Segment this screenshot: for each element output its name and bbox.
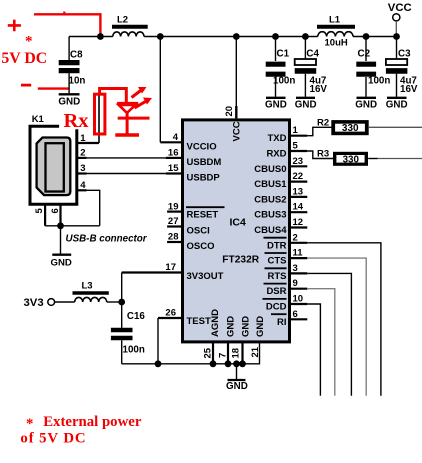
node : C4 junction [302,33,309,40]
svg-text:14: 14 [293,202,304,213]
node : GND stem junction [233,360,240,367]
svg-text:5: 5 [293,141,299,152]
svg-text:GND: GND [355,100,377,111]
ic U1 IC4 FT232R body [183,120,290,342]
svg-text:AGND: AGND [210,309,221,337]
wire : bus to ground symbol [236,364,238,379]
svg-text:22: 22 [293,171,304,182]
svg-text:CBUS3: CBUS3 [254,210,286,221]
wire : K1 pin1 up through Rx [98,92,100,143]
svg-text:C4: C4 [306,49,319,60]
svg-text:DSR: DSR [266,286,286,297]
node : TEST junction [155,360,162,367]
pin 26 TEST of IC4 [158,308,211,328]
svg-text:10uH: 10uH [325,38,348,49]
svg-text:13: 13 [293,186,304,197]
svg-text:100n: 100n [368,76,390,87]
svg-text:3V3: 3V3 [24,297,44,309]
capacitor C4 (polarized) [295,37,328,97]
wire : red resistor to LED [100,89,127,103]
node : red junction on rail [97,33,104,40]
node : C3/VCC junction [393,33,400,40]
svg-text:12: 12 [293,217,304,228]
wire : red minus lead [38,87,69,89]
inductor L1 [317,15,355,49]
svg-text:330: 330 [343,154,360,165]
svg-text:VCC: VCC [388,2,412,14]
node : 3V3 junction [118,299,125,306]
svg-text:OSCO: OSCO [187,241,215,252]
svg-text:CTS: CTS [268,256,287,267]
svg-text:23: 23 [293,156,304,167]
svg-text:GND: GND [240,316,251,337]
svg-text:6: 6 [50,208,61,213]
svg-text:L2: L2 [117,15,128,26]
svg-text:16V: 16V [310,84,328,95]
svg-text:L1: L1 [329,15,341,26]
svg-text:GND: GND [386,100,408,111]
wire : shield ground bus [45,225,100,227]
pin 17 3V3OUT of IC4 [122,262,224,282]
pin 1 of K1 [77,133,99,144]
svg-text:20: 20 [224,106,235,117]
ground below C1 [265,98,287,111]
svg-text:DCD: DCD [266,302,287,313]
LED D1 (red annotation) [115,87,152,135]
wire : USBDP (K1 pin3 to IC pin15) [87,173,167,175]
power VCC [388,2,412,36]
svg-text:GND: GND [226,381,248,392]
pin 5 RXD of IC4 [266,141,307,160]
svg-text:CBUS4: CBUS4 [254,225,287,236]
wire : CTS net [307,258,366,396]
pin 22 CBUS1 of IC4 [254,171,307,190]
wire : K1 pin4 to shield net [87,190,100,226]
connector K1 USB-B [30,114,77,204]
pin 6 of K1 [50,204,61,226]
svg-text:5V DC: 5V DC [1,50,47,67]
pin 23 CBUS0 of IC4 [254,156,307,175]
capacitor C1 [266,37,296,97]
pin 9 DSR of IC4 [264,278,308,297]
ground below C4 [295,98,317,111]
svg-text:TXD: TXD [268,133,287,144]
svg-text:100n: 100n [273,76,295,87]
ground below C8 [58,94,80,107]
svg-text:R3: R3 [317,149,329,160]
svg-text:4: 4 [80,180,86,191]
wire : R2 output [368,126,422,128]
node : GND18 junction [239,360,246,367]
svg-text:RTS: RTS [268,271,287,282]
label USB-B connector [66,234,148,245]
pin 5 of K1 [34,204,45,226]
label external power note (red) [20,414,141,447]
wire : rail to C8 [68,37,70,61]
wire : R3 output [368,158,422,160]
node : AGND junction [210,360,217,367]
resistor R2 [317,118,369,136]
svg-text:GND: GND [225,316,236,337]
svg-text:External power: External power [43,414,142,430]
inductor L3 [73,281,109,303]
svg-text:26: 26 [165,308,176,319]
svg-text:6: 6 [293,309,298,320]
svg-text:CBUS1: CBUS1 [254,179,287,190]
pin 14 CBUS3 of IC4 [254,202,307,221]
wire : rail down to VCC pin 20 [235,37,237,119]
wire : TXD to R2 [307,127,332,135]
label * (red) [25,34,33,50]
node : rail/VCCIO junction [157,33,164,40]
wire : 3V3OUT drop [121,273,123,303]
svg-text:IC4: IC4 [230,217,247,229]
pin 16 USBDM of IC4 [166,148,221,169]
wire : DCD net [307,304,320,396]
wire : RXD to R3 [307,151,334,159]
pin 19 RESET of IC4 [167,201,224,220]
svg-text:DTR: DTR [267,240,287,251]
node : rail/pin20 junction [233,33,240,40]
svg-text:17: 17 [165,262,176,273]
label - (red) [21,84,31,87]
svg-text:7: 7 [217,353,228,358]
svg-text:16V: 16V [400,84,418,95]
svg-text:GND: GND [255,316,266,337]
svg-text:GND: GND [51,258,72,269]
wire : USBDM (K1 pin2 to IC pin16) [87,157,167,159]
pin 6 RI of IC4 [271,309,307,328]
svg-text:15: 15 [168,163,179,174]
svg-text:R2: R2 [317,118,329,129]
inductor L2 [112,15,148,37]
svg-text:Rx: Rx [64,110,90,132]
label + (red) [8,20,21,32]
svg-text:3: 3 [293,263,298,274]
svg-text:VCCIO: VCCIO [187,142,217,153]
svg-text:19: 19 [168,201,179,212]
svg-text:USBDP: USBDP [187,173,221,184]
resistor Rx (red annotation) [64,94,105,134]
svg-text:VCC: VCC [231,121,242,141]
wire : C8 to ground [68,73,70,93]
ground below IC4 [226,380,248,392]
pin 4 VCCIO of IC4 [160,132,216,153]
svg-text:25: 25 [202,347,213,358]
pin 1 TXD of IC4 [268,125,308,144]
pin 25 AGND of IC4 [202,309,221,364]
ground below C2 [355,98,377,111]
svg-text:OSCI: OSCI [187,226,210,237]
capacitor C2 [356,37,390,97]
ground below C3 [386,98,408,111]
pin 21 GND of IC4 [250,316,266,358]
svg-text:10: 10 [293,294,304,305]
svg-text:GND: GND [295,100,317,111]
svg-text:FT232R: FT232R [222,255,259,266]
svg-text:of 5V DC: of 5V DC [20,431,86,447]
svg-text:11: 11 [293,248,304,259]
svg-text:5: 5 [34,208,45,214]
svg-text:L3: L3 [82,281,93,292]
svg-text:C1: C1 [277,49,290,60]
svg-text:RESET: RESET [187,209,219,220]
svg-text:C16: C16 [127,311,146,322]
svg-text:1: 1 [293,125,299,136]
wire : rail down to VCCIO pin 4 [159,37,161,143]
svg-text:28: 28 [168,232,179,243]
svg-text:2: 2 [293,232,298,243]
node : C2 junction [363,33,370,40]
svg-text:TEST: TEST [187,316,211,327]
wire : TEST drop [157,318,159,364]
pin 10 DCD of IC4 [263,294,308,313]
svg-text:3V3OUT: 3V3OUT [187,271,224,282]
svg-text:GND: GND [265,100,287,111]
svg-text:16: 16 [168,148,179,159]
node : C1 junction [272,33,279,40]
node : GND7 junction [225,360,232,367]
wire : 5V rail top [69,36,397,38]
wire : shield to ground [60,226,62,254]
wire : ground bus bottom [122,342,260,364]
resistor R3 [317,149,368,166]
pin 3 RTS of IC4 [265,263,308,282]
wire : DSR net [307,289,335,396]
svg-text:330: 330 [342,123,359,134]
wire : DTR net [307,243,381,396]
pin 3 of K1 [77,163,87,174]
svg-text:100n: 100n [123,345,145,356]
svg-text:9: 9 [293,278,298,289]
pin 11 CTS of IC4 [265,248,308,267]
capacitor C3 (polarized) [386,37,418,97]
capacitor C16 [111,302,146,364]
pin 4 of K1 [77,180,87,191]
svg-text:K1: K1 [32,114,45,125]
pin 2 of K1 [77,148,87,159]
pin 15 USBDP of IC4 [166,163,220,184]
ground below K1 [51,255,72,269]
svg-text:USBDM: USBDM [187,157,222,168]
pin 2 DTR of IC4 [264,232,308,251]
svg-text:CBUS2: CBUS2 [254,194,286,205]
pin 13 CBUS2 of IC4 [254,186,307,205]
svg-text:C2: C2 [358,49,371,60]
wire : L3 to 3V3OUT node [107,301,122,303]
wire : RTS net [307,273,351,395]
svg-text:RXD: RXD [266,149,286,160]
pin 27 OSCI of IC4 [167,216,210,236]
label 5V DC (red) [1,50,47,67]
wire : red +5V feed [34,12,100,35]
pin 18 GND of IC4 [231,316,252,364]
svg-text:RI: RI [277,317,287,328]
capacitor C8 [59,50,86,87]
svg-text:10n: 10n [69,76,86,87]
pin 7 GND of IC4 [217,316,236,364]
svg-text:C8: C8 [70,50,83,61]
svg-text:*: * [25,34,33,50]
svg-text:27: 27 [168,216,179,227]
pin 12 CBUS4 of IC4 [254,217,307,236]
pin 28 OSCO of IC4 [167,232,214,252]
svg-text:CBUS0: CBUS0 [254,164,286,175]
power 3V3 [24,297,75,309]
svg-text:4: 4 [173,132,179,143]
svg-text:USB-B connector: USB-B connector [66,234,148,245]
node : shield junction [57,222,64,229]
pin 20 VCC of IC4 [224,106,243,142]
svg-text:GND: GND [58,97,80,108]
svg-text:18: 18 [231,348,242,359]
svg-text:C3: C3 [398,49,411,60]
